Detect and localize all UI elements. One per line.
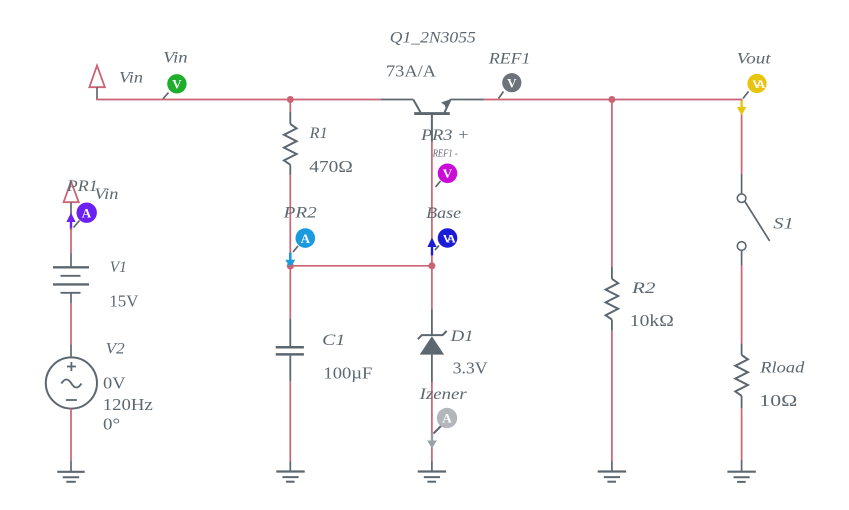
svg-text:V: V xyxy=(507,75,517,90)
switch S1 xyxy=(737,194,769,266)
probe REF1 tail xyxy=(499,92,504,99)
probe PR3 circle V xyxy=(438,164,458,184)
wire xyxy=(431,142,433,266)
svg-text:Izener: Izener xyxy=(419,386,468,403)
resistor R2 xyxy=(606,267,619,331)
probe PR1 circle A xyxy=(77,203,97,223)
wire xyxy=(289,100,291,113)
wire xyxy=(289,175,291,266)
svg-text:REF1: REF1 xyxy=(488,51,531,68)
svg-text:0°: 0° xyxy=(103,415,120,434)
wire xyxy=(289,266,291,319)
probe Vout tail xyxy=(743,92,749,99)
wire xyxy=(70,303,72,345)
transistor Q1 emitter arrow xyxy=(441,99,451,110)
probe PR3 tail xyxy=(436,181,441,187)
transistor emitter lead xyxy=(450,99,483,101)
probe REF1 circle V xyxy=(502,73,521,92)
wire xyxy=(431,382,433,461)
svg-text:Vout: Vout xyxy=(737,50,772,67)
probe PR2 circle A xyxy=(296,228,316,248)
junction node (R1) xyxy=(287,96,294,103)
svg-text:V: V xyxy=(443,166,453,181)
zener diode D1 xyxy=(418,309,447,382)
wire xyxy=(70,202,72,228)
wire rail left xyxy=(96,99,381,101)
svg-text:470Ω: 470Ω xyxy=(309,157,353,176)
svg-text:10kΩ: 10kΩ xyxy=(630,311,674,330)
probe Vout arrow xyxy=(740,101,742,109)
resistor Rload xyxy=(735,343,748,408)
svg-text:100µF: 100µF xyxy=(323,364,372,383)
probe PR2 arrow xyxy=(289,253,292,262)
battery V1 xyxy=(53,267,89,303)
probe Vin circle V xyxy=(167,74,186,93)
wire xyxy=(96,87,98,99)
junction node (R2) xyxy=(608,96,615,103)
wire xyxy=(289,381,291,461)
svg-text:A: A xyxy=(442,411,452,426)
ground xyxy=(727,472,755,482)
probe PR2 tail xyxy=(293,246,298,252)
svg-text:V2: V2 xyxy=(106,341,125,358)
svg-text:Q1_2N3055: Q1_2N3055 xyxy=(390,30,476,47)
svg-text:73A/A: 73A/A xyxy=(386,62,436,81)
svg-text:Vin: Vin xyxy=(163,50,188,67)
wire xyxy=(70,254,72,268)
svg-text:C1: C1 xyxy=(322,332,345,349)
probe PR1 tail xyxy=(74,221,80,228)
capacitor C1 xyxy=(276,319,304,382)
ground xyxy=(276,472,304,482)
svg-text:S1: S1 xyxy=(773,216,794,233)
svg-text:PR3 +: PR3 + xyxy=(420,127,469,144)
svg-text:PR1: PR1 xyxy=(66,178,98,195)
transistor Q1 collector lead xyxy=(381,99,413,101)
svg-text:A: A xyxy=(82,205,92,220)
wire xyxy=(70,409,72,461)
wire xyxy=(611,100,613,268)
ground xyxy=(57,472,84,482)
svg-text:Vin: Vin xyxy=(94,186,118,203)
probe Izener circle A xyxy=(437,408,457,428)
probe Base circle VA xyxy=(438,228,458,248)
input port arrow Vin (rail) xyxy=(89,66,105,88)
svg-text:120Hz: 120Hz xyxy=(103,395,153,414)
AC source V2 xyxy=(46,357,97,408)
svg-text:3.3V: 3.3V xyxy=(453,359,488,378)
wire rail right xyxy=(484,99,742,101)
wire xyxy=(741,99,743,174)
junction node (PR2) xyxy=(287,263,294,270)
wire xyxy=(431,461,433,472)
ground xyxy=(598,472,626,482)
svg-text:Vin: Vin xyxy=(119,69,143,86)
probe Vin tail xyxy=(163,93,169,99)
input port arrow Vin (left branch) xyxy=(64,182,79,203)
svg-text:V: V xyxy=(172,77,182,92)
wire xyxy=(431,266,433,309)
ground xyxy=(418,472,446,482)
probe Izener tail xyxy=(434,426,442,434)
probe Vout circle VA xyxy=(747,74,766,93)
svg-text:R1: R1 xyxy=(309,125,328,142)
wire xyxy=(70,461,72,472)
wire xyxy=(611,461,613,472)
wire xyxy=(70,228,72,254)
svg-text:0V: 0V xyxy=(103,374,126,393)
svg-text:Base: Base xyxy=(426,205,461,222)
svg-text:R2: R2 xyxy=(631,280,656,297)
svg-text:REF1 -: REF1 - xyxy=(432,149,458,160)
probe Izener arrow xyxy=(431,434,433,443)
wire xyxy=(741,266,743,344)
transistor Q1 xyxy=(413,99,450,141)
svg-text:Rload: Rload xyxy=(759,360,805,377)
wire xyxy=(741,460,743,472)
svg-text:D1: D1 xyxy=(449,328,473,345)
wire xyxy=(741,408,743,460)
wire xyxy=(70,345,72,358)
wire xyxy=(741,174,743,194)
svg-text:PR2: PR2 xyxy=(283,205,317,222)
svg-text:10Ω: 10Ω xyxy=(759,391,797,410)
wire xyxy=(611,331,613,461)
svg-text:15V: 15V xyxy=(109,292,138,311)
svg-text:V1: V1 xyxy=(110,259,127,276)
wire xyxy=(289,461,291,472)
probe Base tail xyxy=(435,246,439,251)
svg-text:A: A xyxy=(301,231,311,246)
probe PR1 arrow xyxy=(66,213,75,222)
junction node (base) xyxy=(428,262,435,269)
wire xyxy=(290,265,432,267)
resistor R1 xyxy=(284,112,297,175)
probe Base arrow xyxy=(427,238,436,248)
